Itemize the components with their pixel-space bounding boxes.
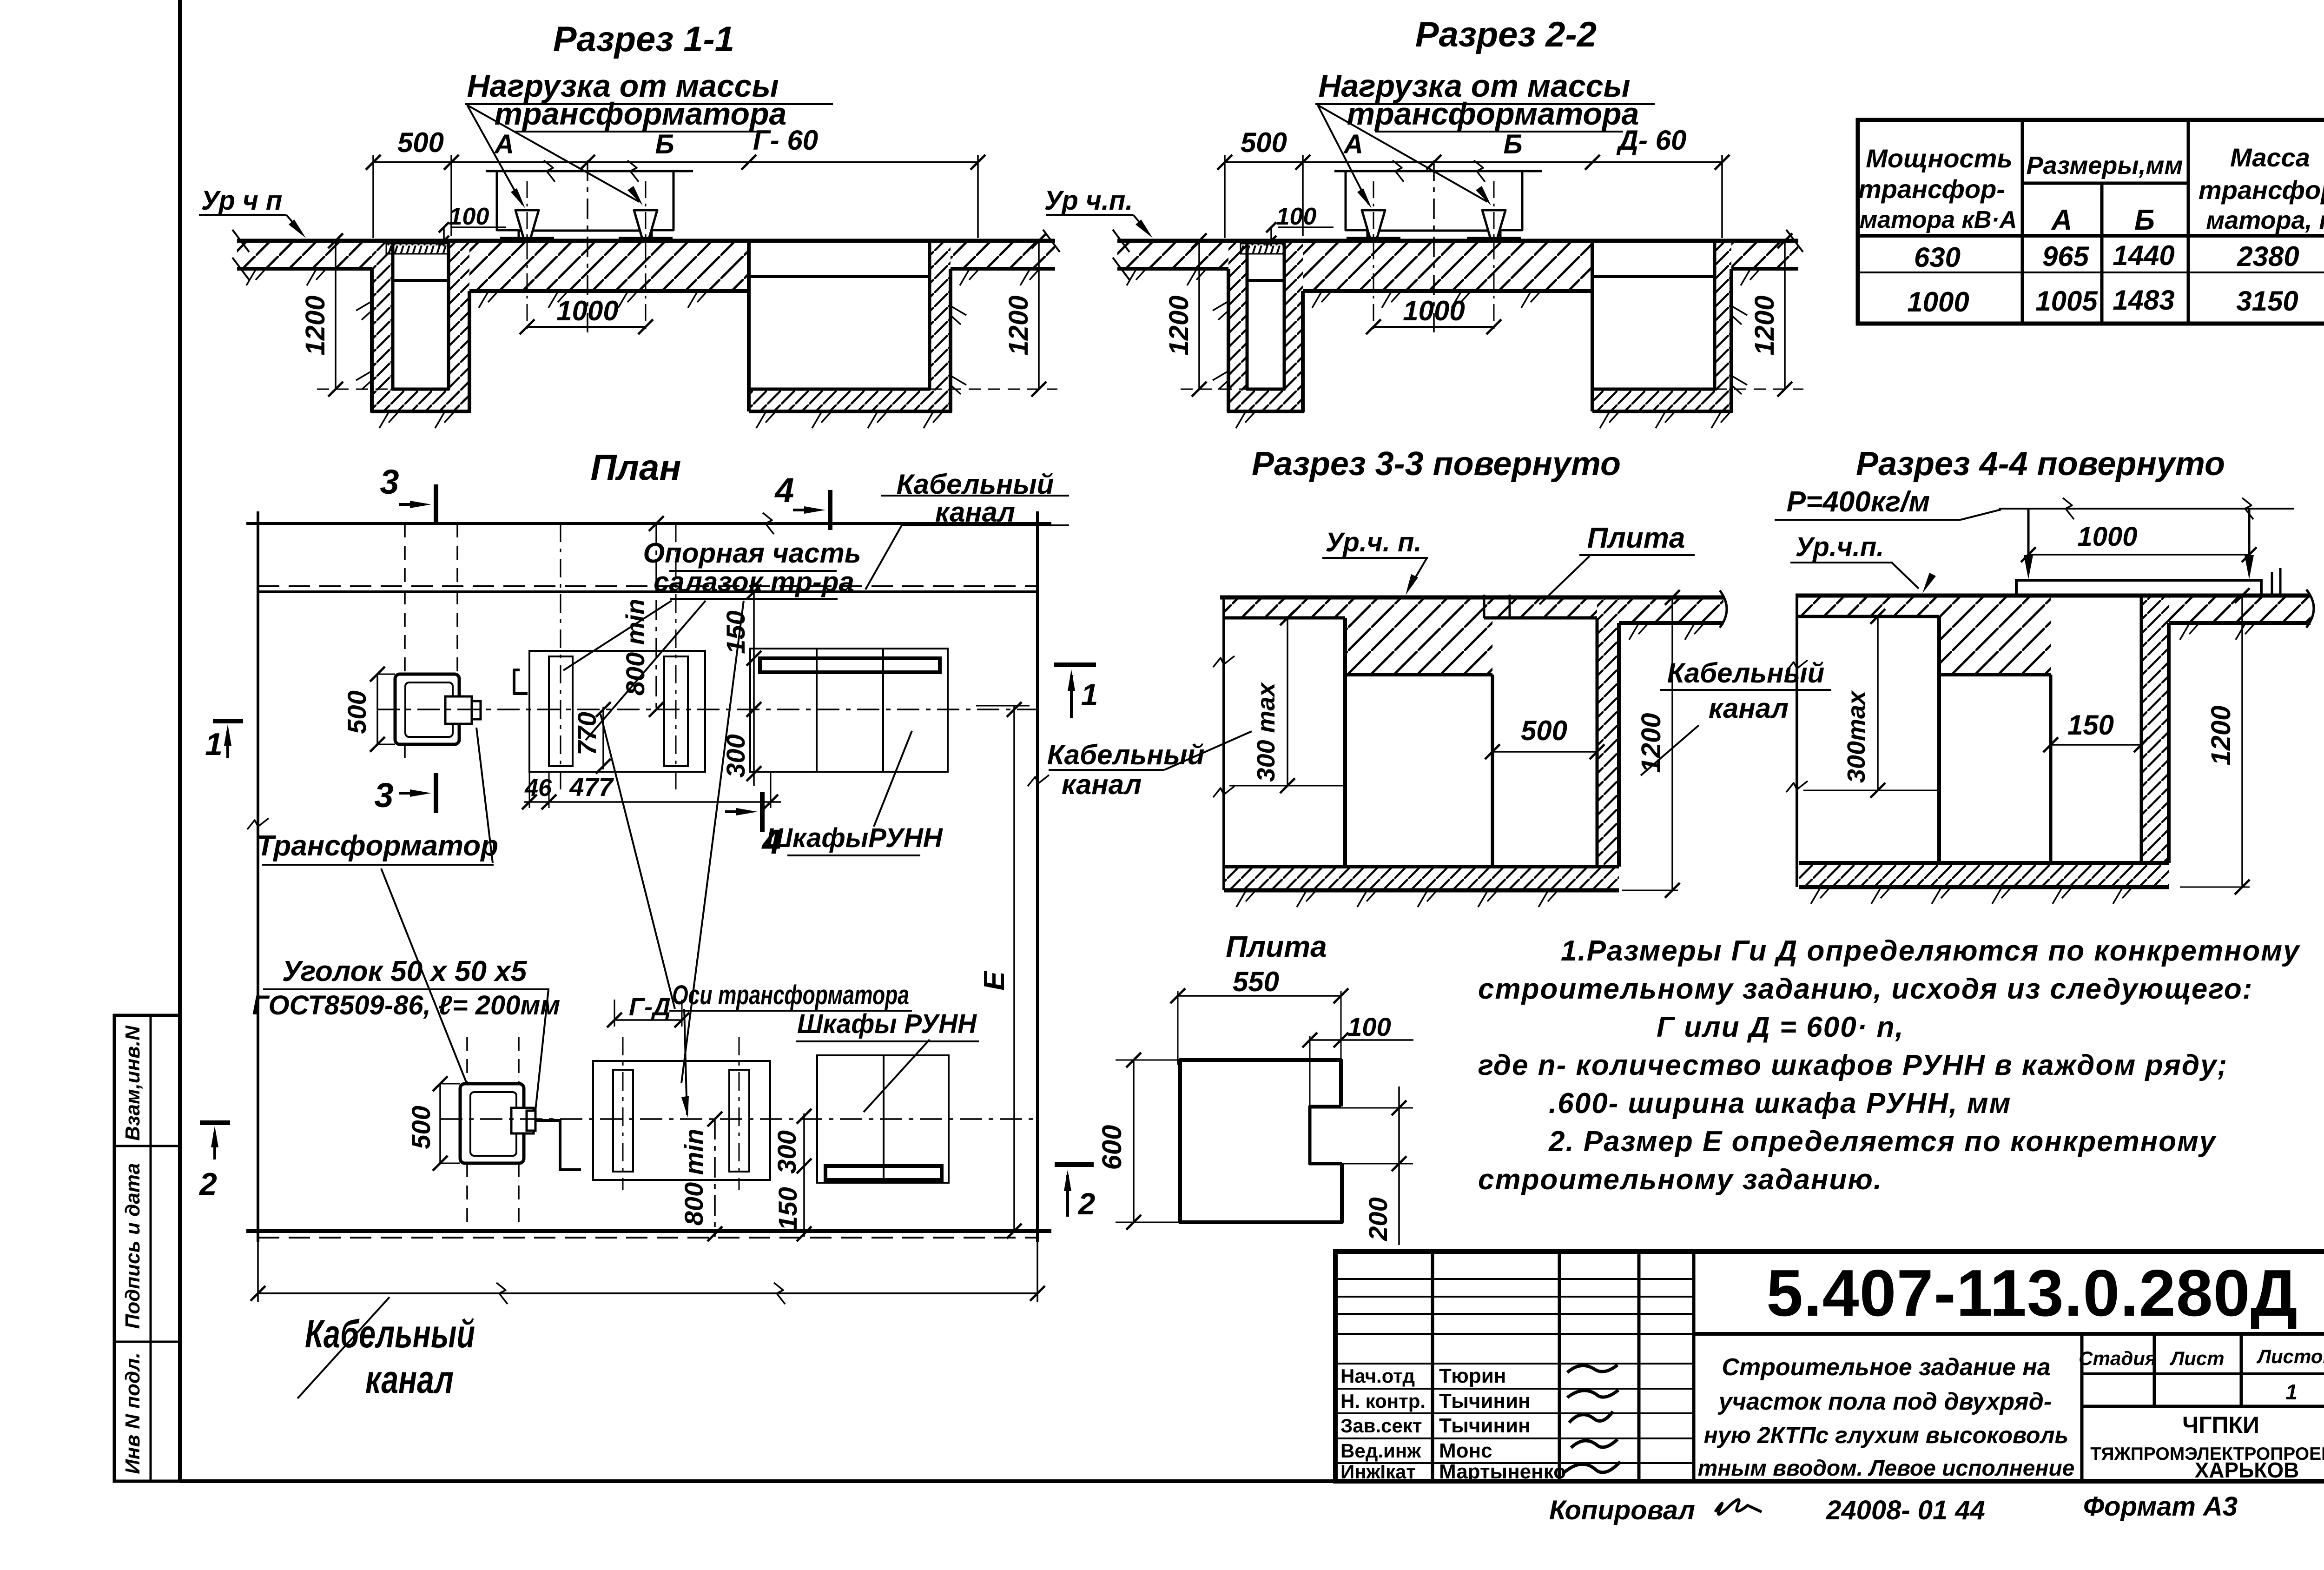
svg-text:строительному заданию, исходя: строительному заданию, исходя из следующ… [1478,973,2253,1005]
svg-text:трансформатора: трансформатора [495,96,787,132]
svg-text:А: А [494,129,514,159]
svg-text:3150: 3150 [2236,285,2298,317]
svg-text:Лист: Лист [2169,1347,2224,1369]
svg-text:Размеры,мм: Размеры,мм [2027,152,2183,179]
svg-text:Оси трансформатора: Оси трансформатора [672,980,909,1010]
svg-text:300mах: 300mах [1842,690,1870,783]
svg-text:Масса: Масса [2230,143,2310,172]
svg-text:Копировал: Копировал [1549,1495,1695,1525]
svg-text:Ур ч.п.: Ур ч.п. [1044,185,1133,216]
svg-text:5.407-113.0.280Д: 5.407-113.0.280Д [1766,1256,2298,1330]
svg-text:1200: 1200 [300,295,330,355]
svg-text:Г-Д: Г-Д [629,993,671,1021]
svg-text:1: 1 [1081,677,1098,712]
svg-text:Строительное задание на: Строительное задание на [1722,1354,2050,1381]
svg-text:трансфор-: трансфор- [1858,174,2005,204]
svg-text:2: 2 [198,1166,217,1202]
svg-text:Кабельный: Кабельный [305,1312,475,1356]
svg-text:Взам,инв.N: Взам,инв.N [121,1025,144,1141]
svg-text:Трансформатор: Трансформатор [257,830,498,862]
svg-text:1000: 1000 [1403,295,1465,326]
svg-text:500: 500 [397,127,444,158]
svg-text:А: А [1343,129,1363,159]
svg-text:Мартыненко: Мартыненко [1439,1460,1566,1483]
svg-text:600: 600 [1097,1125,1127,1170]
svg-text:Шкафы РУНН: Шкафы РУНН [797,1009,977,1039]
svg-text:100: 100 [1276,203,1317,230]
svg-text:300: 300 [772,1130,801,1173]
svg-text:1483: 1483 [2113,285,2174,316]
svg-text:Тычинин: Тычинин [1439,1414,1531,1437]
svg-text:ную 2КТПс глухим высоковоль: ную 2КТПс глухим высоковоль [1704,1422,2069,1448]
svg-text:Плита: Плита [1587,522,1685,554]
svg-text:800 min: 800 min [621,599,650,696]
svg-text:1200: 1200 [1636,713,1666,773]
svg-text:3: 3 [380,463,399,501]
svg-text:Вед.инж: Вед.инж [1340,1440,1421,1462]
svg-text:100: 100 [1347,1012,1391,1041]
svg-text:300 mах: 300 mах [1252,682,1280,782]
svg-text:ШкафыРУНН: ШкафыРУНН [766,823,943,853]
svg-text:ЧГПКИ: ЧГПКИ [2182,1412,2259,1438]
svg-text:3: 3 [374,776,393,815]
svg-text:1200: 1200 [2206,705,2236,765]
svg-text:150: 150 [721,610,750,654]
svg-text:матора кВ·А: матора кВ·А [1860,206,2017,233]
svg-text:строительному заданию.: строительному заданию. [1478,1164,1882,1196]
svg-text:Тычинин: Тычинин [1439,1390,1531,1412]
svg-text:Стадия: Стадия [2079,1347,2156,1369]
svg-text:2. Размер Е определяется по: 2. Размер Е определяется по конкретному [1548,1126,2217,1158]
svg-text:500: 500 [406,1106,436,1149]
svg-text:Разрез 3-3 повернуто: Разрез 3-3 повернуто [1252,445,1621,483]
svg-text:Разрез 2-2: Разрез 2-2 [1415,15,1597,54]
svg-text:1005: 1005 [2035,285,2098,317]
svg-text:трансформатора: трансформатора [1347,96,1639,132]
svg-text:Зав.сект: Зав.сект [1340,1415,1422,1437]
svg-text:Мощность: Мощность [1866,144,2012,173]
svg-text:Н. контр.: Н. контр. [1340,1390,1426,1412]
svg-text:500: 500 [1521,715,1567,746]
svg-text:ХАРЬКОВ: ХАРЬКОВ [2195,1458,2299,1482]
svg-text:2380: 2380 [2237,241,2299,272]
svg-text:1200: 1200 [1164,295,1194,355]
svg-text:Р=400кг/м: Р=400кг/м [1787,486,1930,518]
svg-text:150: 150 [773,1187,802,1230]
svg-text:А: А [2051,204,2073,236]
svg-text:Кабельный: Кабельный [1047,739,1205,770]
svg-text:канал: канал [365,1358,454,1401]
svg-text:1200: 1200 [1750,295,1780,355]
svg-text:Плита: Плита [1226,930,1327,963]
svg-text:.600- ширина шкафа РУНН, м: .600- ширина шкафа РУНН, мм [1549,1087,2012,1120]
svg-text:канал: канал [1709,693,1789,724]
svg-text:1.Размеры Ги Д определяются: 1.Размеры Ги Д определяются по конкретно… [1561,935,2301,967]
svg-text:Б: Б [1503,129,1522,159]
svg-text:Б: Б [2134,204,2155,236]
svg-text:тным вводом. Левое исполнение: тным вводом. Левое исполнение [1698,1456,2075,1481]
svg-text:матора, кг: матора, кг [2206,206,2324,234]
svg-text:1: 1 [205,727,223,762]
svg-text:1000: 1000 [556,295,618,326]
svg-text:150: 150 [2067,709,2114,741]
svg-text:46: 46 [524,775,552,802]
svg-text:550: 550 [1233,966,1279,997]
svg-text:Г или Д = 600· n,: Г или Д = 600· n, [1657,1011,1904,1043]
svg-text:500: 500 [1241,127,1287,158]
svg-text:770: 770 [572,712,601,755]
svg-text:Кабельный: Кабельный [1667,657,1825,689]
svg-text:630: 630 [1914,242,1961,273]
svg-text:ГОСТ8509-86, ℓ= 200мм: ГОСТ8509-86, ℓ= 200мм [252,990,561,1020]
svg-text:Разрез 1-1: Разрез 1-1 [553,20,734,59]
svg-text:Ур.ч. п.: Ур.ч. п. [1326,527,1422,557]
svg-text:965: 965 [2042,241,2090,272]
svg-text:участок пола под двухряд-: участок пола под двухряд- [1717,1388,2052,1415]
svg-text:Листов: Листов [2256,1345,2324,1367]
svg-text:Д- 60: Д- 60 [1616,125,1687,156]
svg-text:Опорная часть: Опорная часть [643,537,861,569]
svg-text:канал: канал [1062,769,1142,800]
svg-text:100: 100 [449,203,489,230]
svg-text:1: 1 [2285,1380,2298,1404]
svg-text:салазок тр-ра: салазок тр-ра [654,566,854,597]
svg-text:Б: Б [655,129,674,159]
svg-text:4: 4 [774,471,794,510]
svg-text:Ур.ч.п.: Ур.ч.п. [1796,532,1884,562]
svg-text:1000: 1000 [1907,286,1969,318]
svg-text:План: План [590,447,681,488]
svg-text:Тюрин: Тюрин [1439,1365,1506,1387]
svg-text:Монс: Монс [1439,1439,1492,1462]
svg-text:где n- количество шкафов: где n- количество шкафов РУНН в каждом р… [1478,1049,2228,1081]
svg-text:24008- 01 44: 24008- 01 44 [1826,1495,1985,1525]
svg-text:500: 500 [342,690,371,734]
svg-text:Формат А3: Формат А3 [2083,1491,2238,1522]
svg-text:477: 477 [569,772,614,802]
svg-text:Разрез 4-4 повернуто: Разрез 4-4 повернуто [1856,445,2225,483]
svg-text:800 min: 800 min [679,1129,708,1226]
svg-text:1200: 1200 [1004,295,1034,355]
svg-text:Инв N подл.: Инв N подл. [121,1352,144,1474]
svg-text:Нач.отд: Нач.отд [1340,1365,1415,1387]
svg-text:трансфор-: трансфор- [2199,175,2324,205]
svg-text:Уголок 50 х 50 х5: Уголок 50 х 50 х5 [282,955,528,987]
svg-text:1440: 1440 [2113,240,2174,271]
svg-text:1000: 1000 [2077,522,2137,552]
svg-text:200: 200 [1363,1197,1393,1241]
svg-text:канал: канал [935,497,1015,528]
svg-text:Г- 60: Г- 60 [753,125,818,156]
svg-text:Е: Е [978,971,1010,991]
svg-text:Ур ч п: Ур ч п [201,185,283,216]
svg-text:2: 2 [1077,1186,1096,1221]
svg-text:ИнжIкат: ИнжIкат [1340,1461,1416,1483]
svg-text:Подпись и дата: Подпись и дата [121,1163,144,1329]
